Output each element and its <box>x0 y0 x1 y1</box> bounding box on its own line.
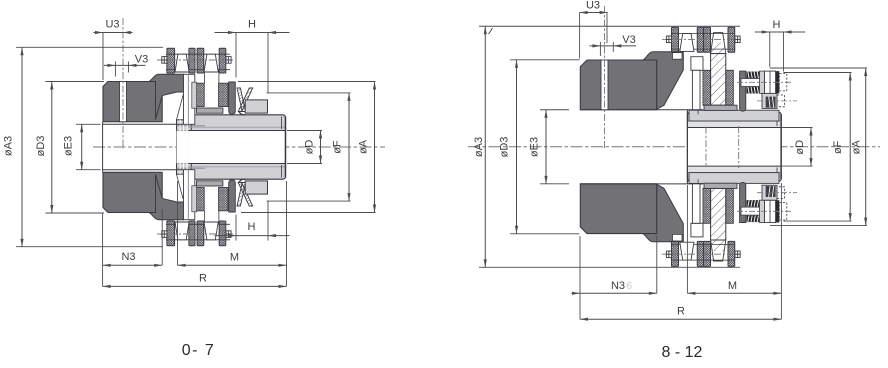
svg-text:U3: U3 <box>105 19 119 31</box>
hub bore lines <box>103 123 184 125</box>
right figure centerline <box>468 146 880 148</box>
sleeve bolt-circle centerline mark <box>738 126 740 168</box>
sleeve (right hub) <box>188 115 286 179</box>
dim U3 right <box>579 13 581 59</box>
right chain bottom row <box>671 259 735 261</box>
dim phiE3 left <box>76 123 101 125</box>
dim U3 left <box>102 33 104 81</box>
dim phiA3 right <box>479 25 740 27</box>
right mid bar top <box>704 105 737 110</box>
dim phiF left <box>267 92 351 94</box>
right bolt assembly 2 top <box>757 93 797 108</box>
svg-text:U3: U3 <box>586 0 600 12</box>
hub left face line <box>102 122 104 173</box>
right cut teeth (diamond) bottom <box>703 188 711 223</box>
sprocket carrier ring top <box>149 74 184 119</box>
svg-text:øE3: øE3 <box>529 137 541 157</box>
svg-text:V3: V3 <box>135 54 148 66</box>
right pressure plate top <box>740 71 746 111</box>
right sleeve <box>687 112 781 181</box>
dim N3 left <box>102 214 104 287</box>
right pressure plate bottom <box>740 182 746 222</box>
dim phiD left <box>287 130 322 132</box>
disc springs top <box>237 88 246 112</box>
left figure centerline <box>93 146 385 148</box>
hub (left, dark) <box>103 82 162 122</box>
clamping slit <box>120 82 127 122</box>
dim H top left fig <box>235 33 237 78</box>
svg-text:0- 7: 0- 7 <box>182 342 216 359</box>
flange dowel cross bottom <box>693 183 703 185</box>
dim phiA left <box>238 81 376 83</box>
dim H right fig <box>769 32 771 67</box>
dim V3 left <box>104 64 146 66</box>
sprocket carrier ring bottom <box>149 175 184 220</box>
dim R right <box>580 318 781 320</box>
tooth gap verticals top <box>203 70 205 83</box>
right sprocket elevation top <box>691 57 703 71</box>
svg-text:øE3: øE3 <box>63 136 75 156</box>
dim H bottom left fig <box>235 215 237 241</box>
dim V3 right <box>590 45 637 47</box>
dim phiA right <box>770 67 867 69</box>
cut sprocket teeth bottom (hatched) <box>195 188 204 211</box>
dim phiA3 left <box>16 46 163 48</box>
adjusting nut top <box>245 100 267 113</box>
dim phiD3 left <box>46 81 105 83</box>
right bolt assembly 1 bottom <box>737 200 791 222</box>
adjusting nut bottom <box>245 181 267 194</box>
svg-text:V3: V3 <box>622 34 635 46</box>
svg-text:M: M <box>230 252 239 264</box>
flange dowel cross top <box>693 109 703 111</box>
right flange band top <box>689 110 779 121</box>
right mid bar bottom <box>704 183 737 188</box>
right carrier ring top <box>643 52 683 110</box>
left sprocket elevation band bottom <box>184 170 195 220</box>
right bolt assembly 1 top <box>737 71 791 93</box>
right sprocket elevation bottom <box>691 223 703 237</box>
dim M right <box>686 185 688 293</box>
dim N3 right <box>579 236 581 319</box>
sprocket ring bar top <box>196 108 223 113</box>
right carrier ring bottom <box>643 184 683 242</box>
dim R left <box>103 285 287 287</box>
svg-text:øD: øD <box>794 140 806 155</box>
tooth gap verticals bottom <box>203 211 205 224</box>
svg-text:H: H <box>248 19 256 31</box>
dim M left <box>177 181 179 265</box>
left sprocket elevation band top <box>184 74 195 124</box>
svg-text:R: R <box>199 273 207 285</box>
svg-text:øA: øA <box>851 140 863 155</box>
right clamping slit <box>601 60 608 110</box>
right big tooth (diagonal hatch) top <box>711 33 726 54</box>
bore vertical centerline mark <box>705 127 707 167</box>
svg-text:H: H <box>773 19 781 31</box>
svg-text:øF: øF <box>332 140 344 154</box>
svg-text:øD3: øD3 <box>35 136 47 157</box>
dim phiD3 right <box>510 59 580 61</box>
svg-text:øD: øD <box>304 140 316 155</box>
dim phiF right <box>784 72 852 74</box>
svg-text:6: 6 <box>627 281 633 292</box>
dim phiD right <box>782 127 813 129</box>
svg-text:øF: øF <box>832 140 844 154</box>
pressure plate top <box>229 82 236 114</box>
chain top row <box>166 53 230 55</box>
right big tooth (diagonal hatch) bottom <box>711 240 726 261</box>
svg-text:øA: øA <box>358 139 370 154</box>
chain bottom row <box>166 239 230 241</box>
disc springs bottom <box>237 183 246 207</box>
svg-text:M: M <box>728 280 737 292</box>
svg-text:N3: N3 <box>611 280 625 292</box>
right chain top row <box>671 33 735 35</box>
dim phiE3 right <box>540 109 569 111</box>
right cut teeth (diamond) top <box>703 70 711 105</box>
svg-text:H: H <box>248 221 256 233</box>
sprocket ring bar bottom <box>196 181 223 186</box>
right bolt assembly 2 bottom <box>757 185 797 200</box>
cut sprocket teeth top (hatched) <box>195 83 204 106</box>
right sleeve face line over bands <box>686 110 688 183</box>
svg-text:øD3: øD3 <box>499 137 511 158</box>
right flange band bottom <box>689 173 779 184</box>
svg-text:R: R <box>677 306 685 318</box>
svg-text:øA3: øA3 <box>3 136 15 156</box>
svg-text:N3: N3 <box>121 251 135 263</box>
pressure plate bottom <box>229 180 236 212</box>
svg-text:øA3: øA3 <box>473 137 485 157</box>
svg-text:8 - 12: 8 - 12 <box>662 344 703 361</box>
right hub <box>580 60 657 110</box>
right sleeve left face line <box>686 110 688 183</box>
